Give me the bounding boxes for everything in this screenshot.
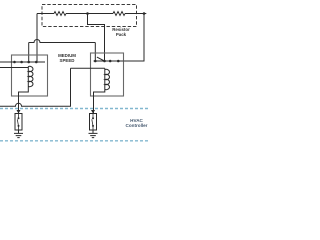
relay K1 box left: [12, 55, 48, 96]
wire right drop to switch line: [124, 14, 145, 62]
svg-text:Controller: Controller: [126, 123, 148, 128]
coil K1 windings: [28, 66, 33, 86]
node contact 1: [13, 61, 16, 64]
HVAC controller boundary dashed bottom: [0, 140, 150, 142]
wire medium speed with crossover hop: [29, 40, 96, 43]
driver Q2 box right: [90, 114, 97, 131]
switch blade S1: [97, 57, 105, 61]
wire R1 to R2: [66, 13, 113, 15]
svg-text:Pack: Pack: [116, 32, 127, 37]
svg-text:SPEED: SPEED: [60, 58, 75, 63]
wire controller feed with crossover hop: [0, 68, 71, 106]
label HVAC Controller: [126, 118, 148, 128]
node contact 3: [27, 61, 30, 64]
resistor pack dashed enclosure: [42, 5, 137, 27]
wire left drop to relay contact: [36, 14, 38, 63]
coil K2 windings: [105, 69, 110, 89]
wire coil feed right: [71, 67, 105, 69]
node switch terminal a: [109, 60, 112, 63]
node switch pole: [94, 60, 97, 63]
HVAC controller boundary dashed top: [0, 108, 150, 110]
wire switch line right: [94, 60, 124, 62]
wire coil spine and exit left: [19, 67, 29, 114]
node switch terminal b: [117, 60, 120, 63]
wire coil spine and exit right: [94, 68, 105, 113]
wire coil feed left: [0, 67, 28, 69]
resistor R2: [113, 12, 125, 16]
wire drop to relay contact 3: [28, 43, 30, 63]
wire feed to R1: [37, 13, 54, 15]
wire R2 to right corner: [125, 13, 146, 15]
arrow into controller left: [17, 110, 21, 114]
node contact 2: [20, 61, 23, 64]
wire contact row left: [0, 61, 45, 63]
node junction mid pack: [86, 12, 89, 15]
driver Q1 switch element: [17, 114, 19, 131]
relay K2 box right: [91, 53, 124, 96]
ground G2: [89, 130, 98, 138]
arrow into controller right: [91, 110, 95, 114]
wire mid step to switch common: [88, 14, 105, 62]
node contact 4: [35, 61, 38, 64]
wire drop to switch pole: [94, 43, 96, 62]
ground G1: [14, 130, 23, 138]
label MEDIUM SPEED: [58, 53, 76, 63]
resistor R1: [54, 12, 66, 16]
node junction right corner: [143, 12, 146, 15]
node switch common: [103, 60, 106, 63]
label Resistor Pack: [112, 27, 130, 37]
driver Q1 box left: [15, 114, 22, 131]
driver Q2 switch element: [92, 114, 94, 131]
